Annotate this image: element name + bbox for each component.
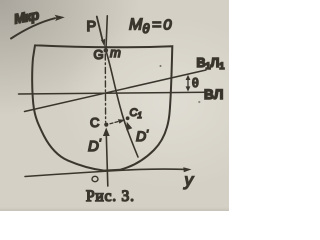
node C1 dot [126, 116, 130, 120]
svg-text:Мθ=0: Мθ=0 [129, 17, 172, 37]
force arrow D' head [126, 122, 132, 131]
buoyancy action line m-C1 [106, 52, 138, 158]
svg-text:D': D' [136, 128, 149, 144]
svg-text:G: G [94, 47, 104, 62]
wire second stroke at G [106, 16, 107, 49]
origin O glyph [92, 176, 98, 181]
moment arrow Мкр [11, 18, 55, 38]
force arrow D head [103, 128, 110, 137]
node C dot [104, 123, 108, 127]
svg-text:ВЛ: ВЛ [204, 87, 224, 102]
node G dot [104, 48, 109, 53]
force arrow D shaft [106, 131, 108, 186]
waterline ВЛ [19, 92, 207, 94]
speck right of hull [198, 101, 200, 103]
hull outline [32, 45, 172, 170]
axis y baseline [25, 169, 187, 176]
angle arrow θ [187, 78, 189, 89]
force arrow P [97, 17, 103, 41]
svg-text:θ: θ [192, 76, 199, 90]
svg-text:у: у [184, 171, 195, 190]
svg-text:P: P [87, 19, 97, 35]
inclined waterline В1Л1 [25, 70, 207, 112]
svg-text:C: C [90, 115, 99, 130]
svg-text:В1Л1: В1Л1 [197, 56, 225, 71]
shift line C to C1 dashed [110, 121, 121, 124]
axis y arrowhead [183, 167, 191, 172]
shift arrow head C1 [118, 119, 125, 123]
centerline dash-dot [104, 54, 106, 122]
svg-text:Рис. 3.: Рис. 3. [86, 188, 135, 205]
speck inside hull [160, 65, 162, 67]
svg-text:D': D' [88, 138, 102, 155]
svg-text:C1: C1 [130, 107, 142, 120]
